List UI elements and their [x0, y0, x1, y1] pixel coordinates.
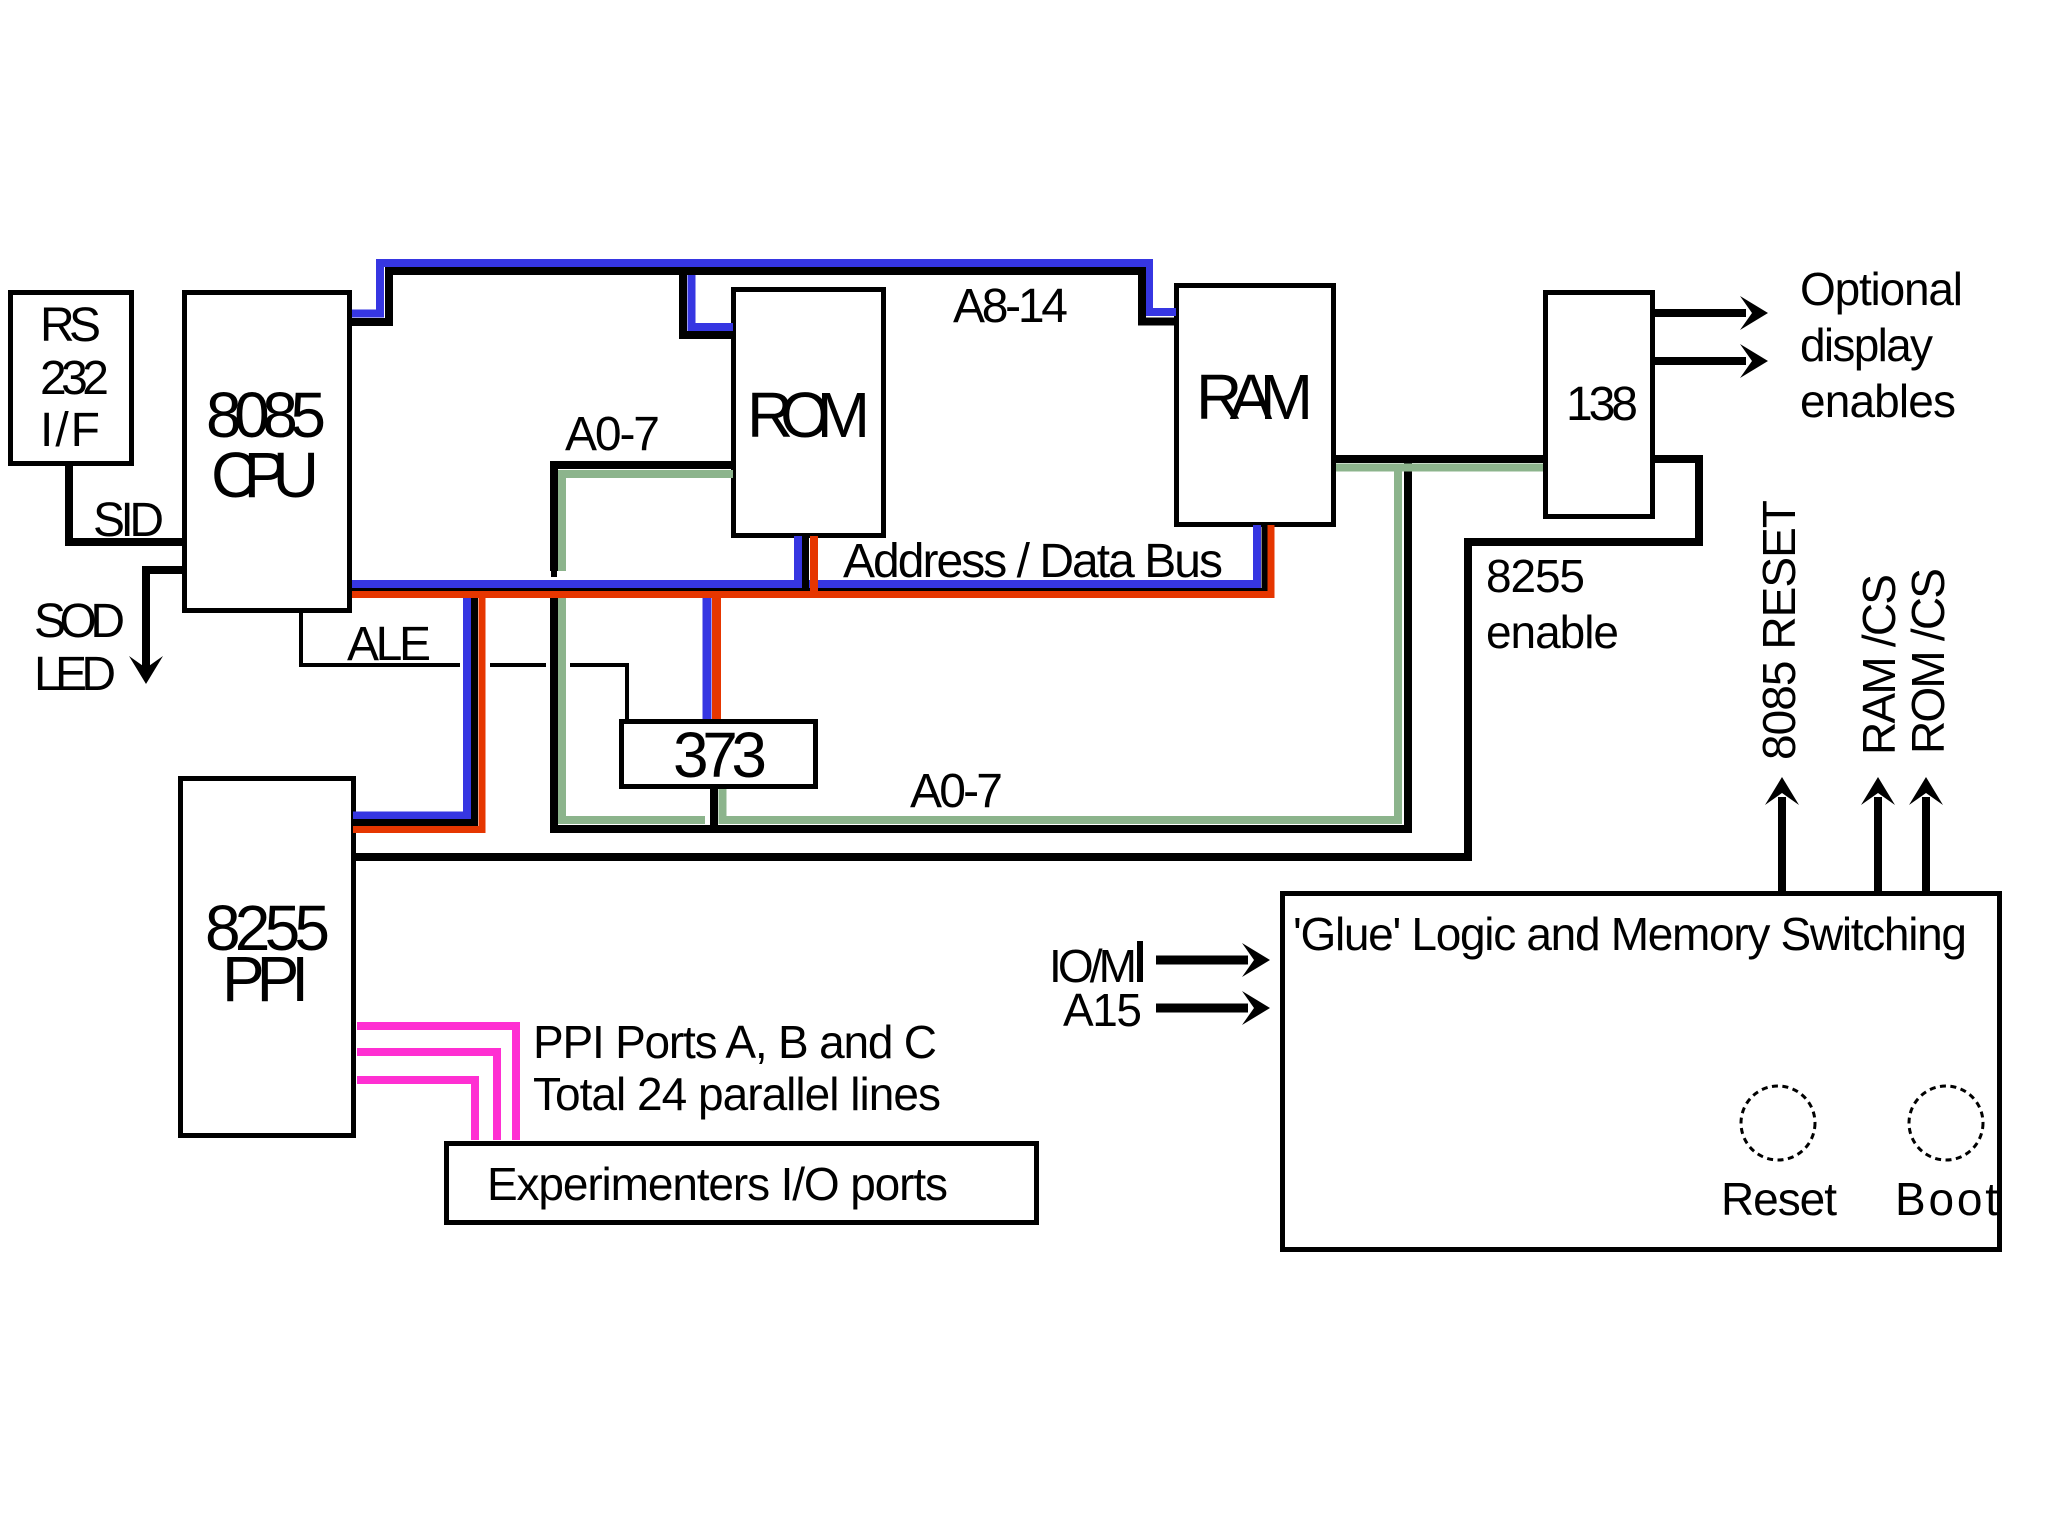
arrowhead RAM CS up: [1861, 777, 1895, 805]
arrowhead optional display enable 1: [1740, 296, 1768, 330]
wire address data bus black main: [352, 525, 1265, 590]
svg-text:Address / Data Bus: Address / Data Bus: [843, 535, 1223, 588]
svg-text:Experimenters I/O ports: Experimenters I/O ports: [487, 1158, 948, 1210]
wire ALE segment 2: [490, 663, 546, 667]
svg-text:RAM: RAM: [1196, 361, 1313, 433]
wire 8085 RESET from glue: [1778, 797, 1786, 891]
arrowhead ROM CS up: [1909, 777, 1943, 805]
wire optional display enable 1: [1655, 309, 1746, 317]
wire A8-14 bus blue CPU to RAM: [352, 263, 1176, 314]
arrowhead SOD LED down: [129, 656, 163, 684]
wire address data bus red riser to 373: [712, 594, 721, 719]
svg-text:SOD: SOD: [34, 595, 125, 648]
wire A0-7 green from ROM left segment: [562, 474, 733, 820]
box ROM: [734, 290, 884, 536]
svg-text:A0-7: A0-7: [565, 408, 660, 461]
wire A8-14 bus blue ROM branch: [692, 269, 734, 327]
wire 373 output green drop: [719, 789, 727, 820]
box Glue Logic and Memory Switching: [1283, 894, 2000, 1250]
wire A8-14 bus black ROM branch: [683, 271, 733, 335]
pushbutton Boot circle: [1909, 1086, 1983, 1160]
wire A0-7 green bottom right segment: [719, 468, 1399, 821]
box RS232 I/F: [11, 293, 132, 464]
wire ROM CS from glue: [1922, 797, 1930, 891]
wire address data bus blue riser to ROM: [794, 536, 802, 582]
arrowhead optional display enable 2: [1740, 344, 1768, 378]
svg-text:enable: enable: [1486, 606, 1619, 658]
svg-text:ALE: ALE: [347, 618, 431, 671]
svg-text:LED: LED: [34, 648, 116, 701]
arrowhead A15: [1242, 991, 1270, 1025]
svg-text:'Glue' Logic and Memory Switch: 'Glue' Logic and Memory Switching: [1293, 908, 1967, 960]
svg-text:Optional: Optional: [1800, 263, 1963, 315]
box 373 latch: [622, 722, 816, 787]
pushbutton Reset circle: [1741, 1086, 1815, 1160]
wire PPI port C pink: [357, 1080, 475, 1140]
svg-text:CPU: CPU: [211, 439, 319, 511]
box 138 decoder: [1546, 293, 1653, 517]
wire A15 into glue: [1156, 1004, 1248, 1013]
svg-text:A8-14: A8-14: [953, 280, 1068, 333]
svg-text:PPI Ports A, B and C: PPI Ports A, B and C: [533, 1016, 937, 1068]
wire ALE from CPU to 373: [301, 611, 460, 665]
wire address data bus red drop to 8255 PPI: [353, 594, 482, 830]
wire address data bus black riser to ROM: [802, 536, 809, 589]
wire RAM to 138 green: [1336, 464, 1543, 472]
svg-text:SID: SID: [93, 494, 164, 547]
svg-text:A0-7: A0-7: [910, 765, 1003, 818]
wire address data bus black drop to 8255 PPI: [353, 589, 475, 823]
svg-text:373: 373: [673, 719, 767, 791]
svg-text:8255: 8255: [1486, 550, 1585, 602]
wire 373 output black drop: [710, 789, 718, 829]
svg-text:ROM: ROM: [747, 379, 870, 451]
svg-text:232: 232: [40, 352, 109, 405]
box 8085 CPU: [185, 293, 350, 611]
wire A0-7 black from ROM to bottom bus and up to 138 line: [554, 459, 1408, 829]
junction nub A0-7 black wire at bus break: [551, 571, 557, 577]
svg-text:RAM /CS: RAM /CS: [1853, 574, 1905, 755]
wire RAM to 138 black: [1336, 455, 1543, 463]
svg-text:RS: RS: [40, 299, 101, 352]
wire RAM CS from glue: [1874, 797, 1882, 891]
svg-text:Reset: Reset: [1721, 1173, 1837, 1225]
wire address data bus blue drop to 8255 PPI: [353, 584, 467, 816]
box 8255 PPI: [181, 779, 354, 1136]
wire PPI port B pink: [357, 1052, 497, 1140]
wire IO/M into glue: [1156, 956, 1248, 965]
wire address data bus black riser to RAM: [1262, 525, 1268, 591]
wire PPI port A pink: [357, 1026, 516, 1140]
svg-text:Total 24 parallel lines: Total 24 parallel lines: [533, 1068, 941, 1120]
wire address data bus red main: [352, 525, 1271, 595]
svg-text:PPI: PPI: [222, 943, 309, 1015]
wire ALE segment 3 into 373: [570, 665, 627, 719]
white break of A0-7 pair above address data bus: [544, 571, 572, 581]
svg-text:8085 RESET: 8085 RESET: [1753, 500, 1805, 760]
overbar mark IO/M: [1137, 941, 1143, 982]
box RAM: [1177, 286, 1334, 525]
wire optional display enable 2: [1655, 357, 1746, 365]
wire SID from RS232 to CPU: [69, 464, 184, 542]
svg-text:I/F: I/F: [40, 404, 100, 457]
arrowhead 8085 RESET up: [1765, 777, 1799, 805]
svg-text:display: display: [1800, 319, 1933, 371]
wire address data bus red riser to ROM: [810, 536, 818, 594]
svg-text:enables: enables: [1800, 375, 1956, 427]
wire 8255 enable from 138 to PPI: [356, 459, 1699, 857]
arrowhead IO/M: [1242, 943, 1270, 977]
svg-text:138: 138: [1566, 378, 1638, 431]
svg-text:ROM /CS: ROM /CS: [1902, 568, 1954, 754]
wire address data bus blue riser to 373: [703, 584, 712, 719]
box Experimenters I/O ports: [447, 1144, 1037, 1223]
svg-text:A15: A15: [1063, 984, 1142, 1036]
wire SOD from CPU to LED: [146, 570, 184, 668]
wire A8-14 bus black CPU to RAM: [352, 271, 1176, 322]
wire address data bus blue main: [352, 525, 1257, 584]
